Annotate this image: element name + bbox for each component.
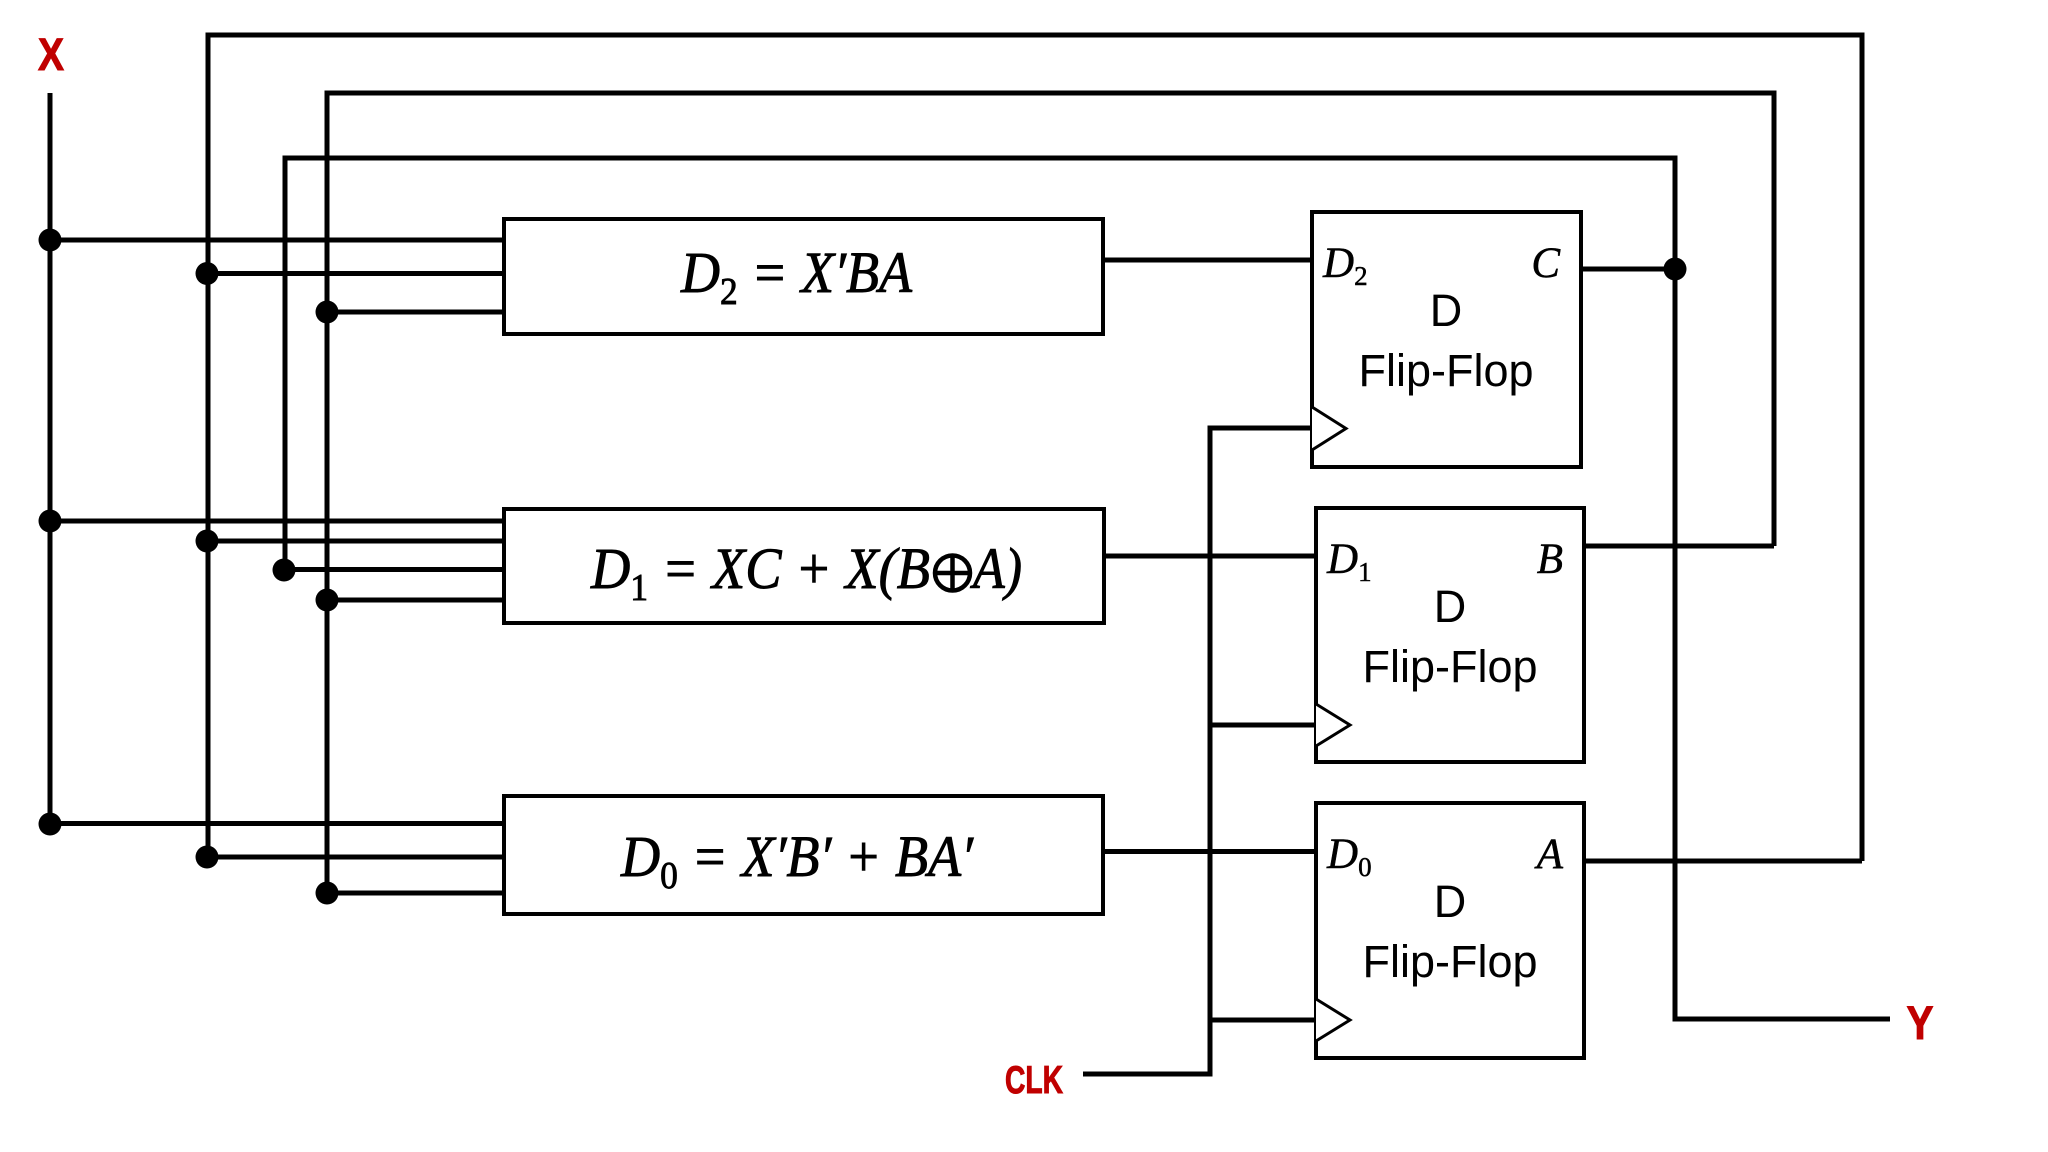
wire CLK branch to FF2 — [1210, 723, 1316, 728]
wire D0 input 3 from B — [327, 891, 506, 896]
svg-text:Flip-Flop: Flip-Flop — [1362, 641, 1537, 692]
wire CLK branch to FF3 — [1210, 1018, 1316, 1023]
wire feedback net B (bus, top run, right run) — [327, 93, 1774, 893]
combinational logic box D0 — [504, 796, 1103, 914]
wire feedback net A (bus, top run, right run) — [208, 35, 1862, 861]
wire D1 input 4 from B — [327, 598, 506, 603]
wire D0 input 2 from A — [207, 855, 506, 860]
wire CLK distribution (feed, riser, branch to FF1) — [1083, 428, 1312, 1074]
wire FF2 output B — [1584, 544, 1774, 549]
svg-text:D2 = X′BA: D2 = X′BA — [680, 240, 912, 313]
FF3 clock triangle — [1316, 999, 1350, 1041]
svg-text:Y: Y — [1907, 996, 1934, 1049]
wire FF3 output A — [1584, 859, 1862, 864]
svg-text:A: A — [1534, 831, 1564, 878]
junction node X to D2 — [39, 229, 62, 252]
wire D2 input 1 from X — [50, 238, 506, 243]
wire X input bus — [48, 93, 53, 824]
junction node B to D2 — [316, 301, 339, 324]
wire D1 input 3 from C — [284, 567, 506, 572]
svg-text:Flip-Flop: Flip-Flop — [1362, 936, 1537, 987]
combinational logic box D1 — [504, 509, 1104, 623]
svg-text:Flip-Flop: Flip-Flop — [1358, 345, 1533, 396]
junction node C output — [1664, 258, 1687, 281]
FF1 clock triangle — [1312, 407, 1346, 450]
wire feedback net C (bus, top run, right run, output Y run) — [285, 158, 1890, 1019]
svg-text:C: C — [1531, 240, 1561, 287]
junction node A to D1 — [196, 530, 219, 553]
junction node B to D0 — [316, 882, 339, 905]
xor symbol circled plus — [935, 556, 970, 591]
wire D2 output to FF1 D input — [1103, 258, 1312, 263]
combinational logic box D2 — [504, 219, 1103, 334]
junction node A to D0 — [196, 846, 219, 869]
D flip-flop U3 (A) box — [1316, 803, 1584, 1058]
svg-text:D: D — [1430, 285, 1463, 336]
wire D2 input 2 from A — [207, 271, 506, 276]
wire D2 input 3 from B — [327, 310, 506, 315]
D flip-flop U2 (B) box — [1316, 508, 1584, 762]
wire D0 output to FF3 D input — [1103, 849, 1316, 854]
svg-text:CLK: CLK — [1005, 1059, 1063, 1102]
FF2 clock triangle — [1316, 704, 1350, 746]
svg-text:X: X — [38, 29, 64, 80]
svg-text:B: B — [1537, 536, 1563, 583]
svg-text:D: D — [1434, 581, 1467, 632]
svg-text:D: D — [1434, 876, 1467, 927]
svg-text:A): A) — [969, 536, 1022, 601]
junction node B to D1 — [316, 589, 339, 612]
junction node X to D0 — [39, 813, 62, 836]
wire D0 input 1 from X — [50, 821, 506, 826]
junction node A to D2 — [196, 262, 219, 285]
wire FF1 output C — [1581, 267, 1675, 272]
junction node X to D1 — [39, 510, 62, 533]
wire D1 input 1 from X — [50, 519, 506, 524]
junction node C to D1 — [273, 559, 296, 582]
D flip-flop U1 (C) box — [1312, 212, 1581, 467]
wire D1 output to FF2 D input — [1104, 554, 1316, 559]
wire D1 input 2 from A — [207, 539, 506, 544]
